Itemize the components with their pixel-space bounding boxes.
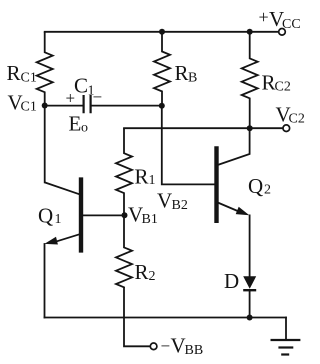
svg-text:R: R xyxy=(7,61,21,85)
node junction C1 / RB xyxy=(159,103,165,109)
resistor RC1 xyxy=(7,32,53,106)
resistor R1 xyxy=(116,128,156,215)
wire top supply rail xyxy=(45,31,279,33)
svg-text:Q: Q xyxy=(38,204,53,228)
wire Q2 emitter down to diode D xyxy=(249,215,251,275)
output terminal VC2 xyxy=(276,103,305,132)
svg-text:R: R xyxy=(135,165,149,189)
capacitor C1 xyxy=(66,74,103,114)
svg-text:C1: C1 xyxy=(21,71,37,86)
wire VC1 down to Q1 collector xyxy=(44,106,46,183)
wire RB node down and across to Q2 base xyxy=(162,106,215,185)
svg-text:1: 1 xyxy=(55,212,62,227)
node junction diode / bus xyxy=(247,315,253,321)
svg-text:C2: C2 xyxy=(289,112,305,127)
node VB1 xyxy=(122,203,158,228)
svg-text:R: R xyxy=(262,71,276,95)
svg-text:E: E xyxy=(69,112,82,136)
resistor R2 xyxy=(116,215,156,288)
svg-text:1: 1 xyxy=(149,173,156,188)
svg-text:V: V xyxy=(157,189,172,213)
svg-text:B2: B2 xyxy=(172,198,188,213)
node junction top rail / RC2 xyxy=(247,29,253,35)
wire diode D to bottom bus xyxy=(249,291,251,318)
svg-text:CC: CC xyxy=(282,17,301,32)
wire VC2 rail xyxy=(124,127,283,129)
wire bottom bus xyxy=(45,317,287,319)
node VC2 junction xyxy=(247,125,253,131)
resistor RC2 xyxy=(242,32,291,128)
svg-text:+: + xyxy=(259,7,269,27)
wire capacitor C1 to RB node xyxy=(92,105,162,107)
ground xyxy=(271,340,301,355)
transistor Q2 xyxy=(217,128,272,223)
power terminal +VCC xyxy=(259,7,301,35)
resistor RB xyxy=(154,32,197,106)
svg-text:−: − xyxy=(161,337,171,356)
wire VC1 node to capacitor C1 xyxy=(45,105,83,107)
diode D xyxy=(224,269,256,293)
svg-text:D: D xyxy=(224,269,239,293)
svg-text:C1: C1 xyxy=(21,100,37,115)
label Eo xyxy=(69,112,89,136)
svg-text:B: B xyxy=(188,71,197,86)
wire bus to ground xyxy=(285,318,287,341)
supply terminal -VBB xyxy=(150,334,203,359)
svg-text:B1: B1 xyxy=(142,212,158,227)
svg-text:BB: BB xyxy=(185,343,204,358)
svg-text:2: 2 xyxy=(149,269,156,284)
node VC1 xyxy=(8,91,48,115)
svg-text:C2: C2 xyxy=(275,80,291,95)
node VB2 (label) xyxy=(157,189,188,214)
transistor Q1 xyxy=(38,177,125,252)
svg-text:R: R xyxy=(135,260,149,284)
wire Q1 emitter down to bottom bus xyxy=(44,244,46,318)
svg-text:C: C xyxy=(74,74,88,98)
svg-text:−: − xyxy=(93,88,103,107)
svg-text:Q: Q xyxy=(248,174,263,198)
svg-text:o: o xyxy=(81,121,88,136)
svg-text:2: 2 xyxy=(264,183,271,198)
node junction top rail / RB xyxy=(159,29,165,35)
wire R2 bottom to -VBB terminal xyxy=(124,288,150,347)
svg-text:R: R xyxy=(175,61,189,85)
svg-text:+: + xyxy=(66,89,76,108)
svg-text:V: V xyxy=(171,334,186,358)
